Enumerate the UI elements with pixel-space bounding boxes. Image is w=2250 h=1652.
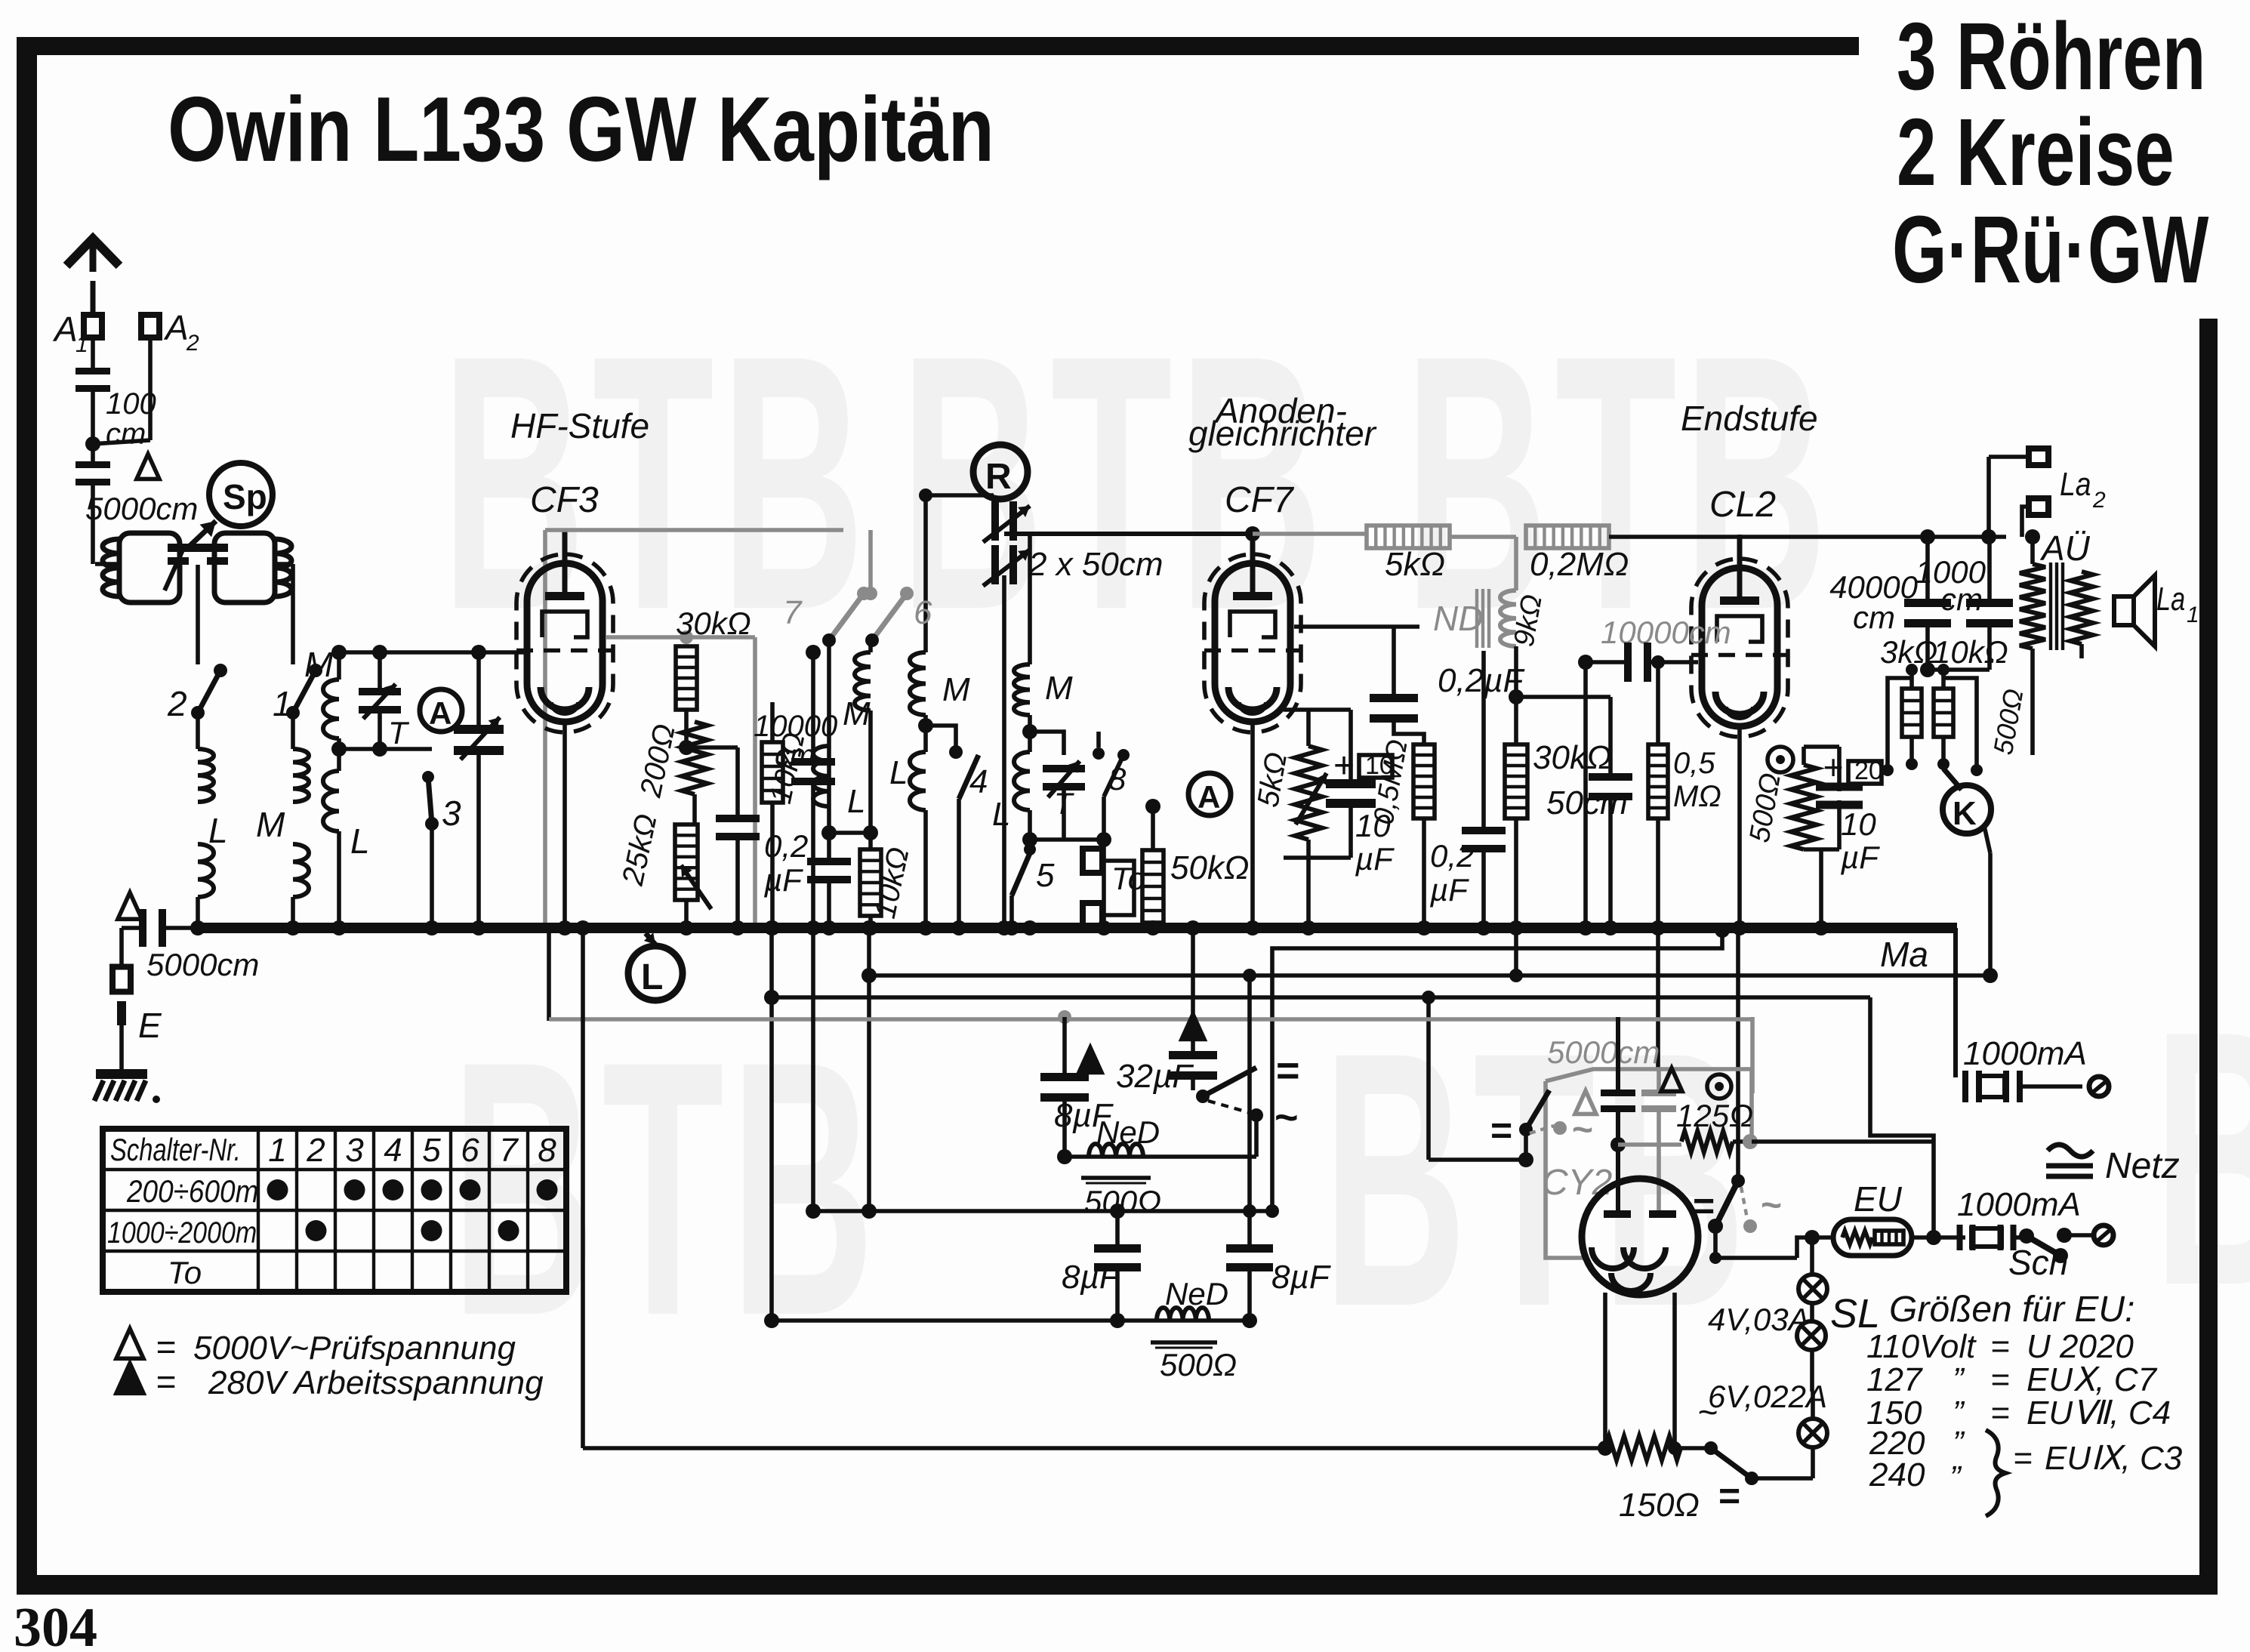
svg-text:BTB: BTB [442, 280, 871, 686]
svg-text:MΩ: MΩ [1673, 780, 1721, 813]
svg-text:5: 5 [1036, 857, 1055, 894]
svg-text:EU: EU [1854, 1179, 1903, 1219]
svg-text:4V,03A: 4V,03A [1708, 1302, 1810, 1337]
svg-text:NeD: NeD [1165, 1276, 1228, 1311]
svg-text:8µF: 8µF [1271, 1259, 1331, 1296]
svg-text:E: E [138, 1006, 162, 1045]
svg-text:1: 1 [268, 1132, 286, 1169]
svg-text:10: 10 [1355, 808, 1391, 843]
svg-text:=: = [1276, 1048, 1300, 1093]
svg-text:=: = [1990, 1328, 2010, 1365]
svg-text:CF3: CF3 [530, 480, 599, 520]
svg-text:0,2MΩ: 0,2MΩ [1530, 546, 1629, 583]
svg-text:CF7: CF7 [1225, 480, 1295, 520]
svg-text:”: ” [1953, 1425, 1965, 1462]
svg-text:L: L [641, 957, 663, 997]
svg-text:Endstufe: Endstufe [1681, 399, 1818, 438]
svg-text:=: = [1990, 1361, 2010, 1398]
svg-text:8: 8 [538, 1132, 556, 1169]
svg-text:”: ” [1949, 1459, 1962, 1496]
svg-text:8µF: 8µF [1062, 1259, 1121, 1296]
svg-text:K: K [1953, 795, 1977, 832]
svg-text:30kΩ: 30kΩ [1533, 739, 1611, 776]
svg-text:A: A [52, 310, 78, 349]
svg-text:M: M [256, 805, 285, 844]
svg-text:A: A [163, 308, 189, 347]
svg-text:5: 5 [422, 1132, 441, 1169]
svg-text:A: A [1197, 779, 1220, 815]
svg-text:5kΩ: 5kΩ [1385, 546, 1445, 583]
svg-text:~: ~ [1761, 1185, 1782, 1225]
svg-text:4: 4 [969, 763, 988, 800]
svg-text:EUⅨ, C3: EUⅨ, C3 [2045, 1440, 2183, 1477]
svg-text:125Ω: 125Ω [1676, 1098, 1753, 1133]
svg-text:2: 2 [167, 684, 187, 723]
svg-text:G·Rü·GW: G·Rü·GW [1892, 197, 2209, 303]
svg-text:3 Röhren: 3 Röhren [1897, 3, 2206, 109]
svg-text:2 x 50cm: 2 x 50cm [1028, 546, 1164, 583]
svg-text:gleichrichter: gleichrichter [1188, 414, 1377, 453]
svg-text:0,5: 0,5 [1673, 747, 1715, 780]
svg-text:L: L [350, 821, 370, 861]
svg-text:32µF: 32µF [1116, 1058, 1194, 1095]
svg-text:2: 2 [2092, 488, 2106, 513]
svg-text:”: ” [1953, 1361, 1965, 1398]
svg-text:1000mA: 1000mA [1963, 1035, 2087, 1072]
svg-text:6: 6 [461, 1132, 479, 1169]
svg-text:10: 10 [1365, 751, 1394, 780]
svg-text:30kΩ: 30kΩ [676, 606, 751, 641]
svg-text:500Ω: 500Ω [1160, 1347, 1237, 1382]
svg-text:CL2: CL2 [1709, 485, 1776, 525]
svg-text:=: = [1718, 1475, 1740, 1517]
svg-text:HF-Stufe: HF-Stufe [510, 406, 649, 445]
svg-text:µF: µF [1355, 841, 1395, 877]
svg-text:M: M [843, 695, 871, 732]
svg-text:U 2020: U 2020 [2027, 1328, 2134, 1365]
svg-text:cm: cm [1853, 599, 1895, 635]
svg-text:6V,022A: 6V,022A [1708, 1379, 1827, 1414]
svg-text:To: To [168, 1255, 202, 1290]
svg-text:4: 4 [384, 1132, 402, 1169]
svg-text:127: 127 [1866, 1361, 1923, 1398]
svg-text:7: 7 [783, 594, 803, 631]
svg-text:7: 7 [499, 1132, 519, 1169]
svg-text:~: ~ [1274, 1095, 1299, 1140]
svg-text:5000cm: 5000cm [85, 491, 198, 526]
svg-text:BTB: BTB [452, 986, 881, 1392]
svg-text:Größen für EU:: Größen für EU: [1889, 1290, 2134, 1330]
svg-text:3kΩ: 3kΩ [1880, 634, 1937, 670]
svg-text:1000mA: 1000mA [1957, 1186, 2081, 1223]
svg-text:6: 6 [914, 594, 932, 631]
svg-text:1000÷2000m: 1000÷2000m [107, 1215, 257, 1249]
svg-text:=: = [1990, 1395, 2010, 1432]
svg-text:Schalter-Nr.: Schalter-Nr. [110, 1132, 241, 1167]
svg-text:Owin L133 GW Kapitän: Owin L133 GW Kapitän [168, 78, 994, 181]
svg-text:R: R [985, 457, 1012, 497]
svg-text:150Ω: 150Ω [1619, 1487, 1700, 1524]
svg-text:=: = [1490, 1109, 1512, 1151]
svg-text:5000cm: 5000cm [1547, 1034, 1660, 1070]
svg-text:La: La [2156, 581, 2185, 618]
svg-text:L: L [847, 783, 865, 820]
svg-text:µF: µF [1429, 872, 1469, 908]
svg-text:M: M [304, 645, 334, 684]
svg-text:cm: cm [106, 418, 146, 451]
svg-text:T: T [388, 715, 410, 750]
svg-text:BTB: BTB [1323, 977, 1752, 1382]
svg-text:L: L [992, 796, 1010, 833]
svg-text:110Volt: 110Volt [1866, 1328, 1977, 1365]
svg-text:A: A [429, 695, 452, 731]
svg-text:=: = [2013, 1440, 2033, 1477]
svg-text:1: 1 [2187, 603, 2199, 627]
svg-text:2: 2 [186, 331, 199, 356]
svg-text:3: 3 [442, 794, 461, 833]
svg-text:Netz: Netz [2105, 1146, 2180, 1186]
svg-text:3: 3 [345, 1132, 364, 1169]
svg-text:280V Arbeitsspannung: 280V Arbeitsspannung [208, 1364, 544, 1401]
svg-text:50kΩ: 50kΩ [1170, 849, 1249, 886]
svg-text:La: La [2060, 465, 2091, 503]
svg-text:10: 10 [1841, 806, 1876, 842]
svg-text:L: L [208, 811, 228, 850]
svg-text:0,2: 0,2 [1430, 838, 1474, 874]
svg-text:EUⅩ, C7: EUⅩ, C7 [2027, 1361, 2157, 1398]
svg-text:304: 304 [14, 1597, 97, 1652]
svg-text:M: M [1045, 670, 1073, 707]
svg-text:Sp: Sp [223, 477, 267, 516]
svg-text:EUⅦ, C4: EUⅦ, C4 [2027, 1395, 2171, 1432]
svg-text:240: 240 [1869, 1456, 1925, 1493]
svg-text:8: 8 [1108, 761, 1127, 797]
svg-text:5000V~Prüfspannung: 5000V~Prüfspannung [193, 1330, 516, 1367]
svg-text:L: L [889, 754, 908, 791]
svg-text:µF: µF [1840, 840, 1880, 875]
svg-text:M: M [942, 671, 970, 708]
svg-text:=: = [156, 1327, 176, 1367]
svg-text:=: = [156, 1362, 176, 1401]
svg-text:2: 2 [306, 1132, 325, 1169]
svg-text:Ma: Ma [1880, 935, 1928, 974]
svg-text:5000cm: 5000cm [146, 947, 259, 982]
svg-text:0,2µF: 0,2µF [1438, 662, 1525, 699]
svg-text:Sch: Sch [2008, 1243, 2068, 1282]
svg-text:10000cm: 10000cm [1601, 615, 1731, 650]
svg-text:2 Kreise: 2 Kreise [1897, 99, 2174, 205]
svg-text:µF: µF [763, 862, 803, 898]
svg-text:20: 20 [1854, 757, 1883, 785]
svg-text:AÜ: AÜ [2039, 529, 2091, 568]
svg-text:NeD: NeD [1096, 1114, 1160, 1150]
svg-text:200÷600m: 200÷600m [126, 1174, 258, 1210]
